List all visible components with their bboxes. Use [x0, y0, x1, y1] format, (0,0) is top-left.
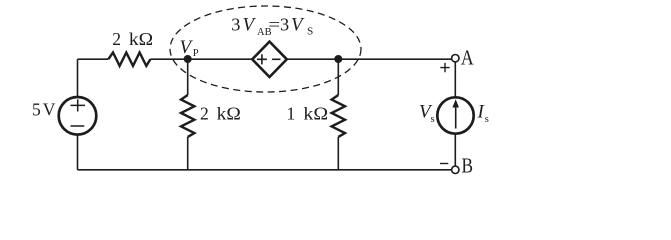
- svg-text:kΩ: kΩ: [217, 104, 241, 124]
- middle vertical wire VP to R2: [187, 59, 189, 95]
- svg-text:kΩ: kΩ: [303, 104, 328, 124]
- svg-text:B: B: [462, 154, 474, 178]
- plus inside V1: [71, 99, 86, 111]
- svg-text:S: S: [307, 27, 313, 38]
- node dot top of R3: [334, 55, 342, 63]
- minus inside V1: [71, 125, 85, 127]
- wire top right: [287, 58, 452, 60]
- svg-text:s: s: [431, 114, 435, 125]
- polarity minus near B: [440, 163, 448, 165]
- voltage source V1 circle: [59, 97, 97, 135]
- svg-text:V: V: [180, 37, 194, 58]
- svg-text:2: 2: [112, 29, 121, 49]
- wire top-left horizontal: [78, 58, 109, 60]
- dashed ellipse highlight: [170, 6, 361, 92]
- vertical wire node to R3: [337, 59, 339, 95]
- svg-text:kΩ: kΩ: [129, 29, 153, 49]
- svg-text:s: s: [485, 114, 489, 125]
- svg-text:A: A: [461, 46, 474, 70]
- svg-text:2: 2: [200, 104, 209, 124]
- right vertical wire lower: [454, 134, 456, 166]
- svg-text:V: V: [243, 14, 257, 35]
- node A open circle: [452, 55, 459, 62]
- left vertical wire upper: [77, 59, 79, 97]
- node VP dot: [184, 55, 192, 63]
- wire below R2: [187, 137, 189, 170]
- resistor R1 2k horizontal: [108, 53, 150, 66]
- svg-text:5: 5: [32, 99, 41, 119]
- svg-text:V: V: [43, 99, 56, 119]
- svg-text:1: 1: [287, 104, 296, 124]
- polarity minus inside diamond: [272, 58, 280, 60]
- svg-text:=: =: [268, 14, 280, 34]
- svg-text:3: 3: [231, 14, 240, 34]
- wire top middle: [150, 58, 252, 60]
- svg-text:P: P: [193, 48, 199, 59]
- bottom wire: [78, 169, 452, 171]
- right vertical wire upper: [454, 62, 456, 97]
- resistor R2 2k vertical: [181, 95, 194, 137]
- polarity plus inside diamond: [257, 54, 267, 64]
- current source Is circle: [437, 97, 473, 133]
- node B open circle: [452, 166, 459, 173]
- left vertical wire lower: [77, 135, 79, 170]
- svg-text:3: 3: [280, 14, 289, 34]
- arrow inside current source: [455, 106, 457, 129]
- polarity plus near A: [440, 63, 449, 72]
- wire below R3: [337, 137, 339, 170]
- dependent source U1 diamond: [252, 42, 287, 77]
- svg-text:V: V: [291, 14, 305, 35]
- resistor R3 1k vertical: [332, 95, 345, 137]
